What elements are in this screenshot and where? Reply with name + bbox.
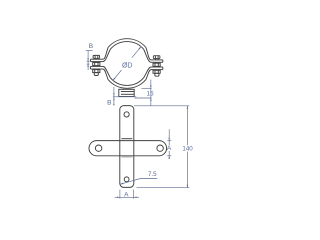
right bolt shaft lower <box>154 65 156 68</box>
arrow dim A bottom right <box>134 197 137 199</box>
arrow dia upper-right <box>139 47 142 50</box>
dim 140 line lower <box>186 152 188 188</box>
left bolt thread end <box>94 73 98 76</box>
arrow dim 140 down <box>187 185 189 188</box>
dim A bottom line right <box>134 196 139 198</box>
left upper band neck <box>103 48 108 60</box>
cross bar right hole <box>157 145 163 151</box>
dim A bottom line left <box>115 196 134 198</box>
vertical bar bottom hole <box>124 177 129 182</box>
dim B upper line <box>87 51 89 71</box>
arrow dim B upper up <box>87 64 89 67</box>
arrow dim A right up <box>168 156 170 159</box>
arrow dim A right down <box>168 138 170 141</box>
svg-text:B: B <box>107 100 111 107</box>
dim B upper tick 2 <box>87 63 90 65</box>
arrow dim 15 down <box>150 85 152 88</box>
left bolt shaft lower <box>94 65 96 68</box>
right nut 2 <box>153 70 160 73</box>
svg-text:15: 15 <box>147 90 154 97</box>
leader 7.5 underline <box>141 178 158 180</box>
dim A right tick bottom <box>167 155 171 157</box>
right bolt shaft mid <box>154 61 156 64</box>
left upper flange plate <box>91 58 104 60</box>
arrow dia lower-left <box>113 78 116 81</box>
dim B lower tick <box>113 104 115 106</box>
vertical bar <box>120 106 134 188</box>
bend line below cross bar <box>121 156 132 158</box>
arrow dim 15 up <box>150 98 152 101</box>
arrow dim B lower down <box>113 93 115 96</box>
left bolt shaft upper <box>94 57 96 60</box>
left lower flange plate <box>90 65 103 67</box>
arrow dim B upper down <box>87 58 89 61</box>
right lower band neck <box>146 70 151 80</box>
dia line upper-right <box>132 47 141 58</box>
left bolt shaft mid <box>94 61 96 64</box>
dim A right line upper <box>168 129 170 145</box>
vertical bar top hole <box>124 112 129 117</box>
right bolt head <box>153 56 160 59</box>
clamp band bottom outer arc <box>108 79 146 88</box>
svg-text:140: 140 <box>182 146 193 153</box>
dim B upper shelf <box>86 50 93 52</box>
left nut 1 <box>93 63 100 66</box>
dim 140 ext top <box>134 105 189 107</box>
socket body <box>119 89 134 96</box>
dim 15 line <box>150 80 152 106</box>
arrow dim 140 up <box>187 106 189 109</box>
arrow dim A bottom left <box>117 197 120 199</box>
dim A right line lower <box>168 151 170 159</box>
dim 140 line upper <box>186 106 188 145</box>
svg-text:B: B <box>89 43 93 50</box>
right nut 1 <box>153 63 160 66</box>
svg-text:A: A <box>167 145 172 152</box>
clamp band top outer arc <box>108 39 146 48</box>
cross bar left hole <box>95 145 101 151</box>
right upper band neck <box>146 48 151 60</box>
right bolt thread end <box>155 73 159 76</box>
dim 15 ext bottom <box>135 97 152 99</box>
dim A bottom ext right <box>133 190 135 199</box>
dim A right tick top <box>167 140 171 142</box>
dim B lower line <box>113 87 115 105</box>
left lower band neck <box>103 69 108 79</box>
svg-text:ØD: ØD <box>122 62 133 69</box>
left nut 2 <box>93 70 100 73</box>
horizontal cross bar <box>89 141 167 156</box>
leader 7.5 line <box>120 179 140 185</box>
dim B lower ext <box>113 96 136 98</box>
right bolt shaft upper <box>154 59 156 60</box>
arrow leader 7.5 <box>120 183 123 185</box>
clamp band top inner arc <box>110 42 144 50</box>
bend line above cross bar <box>121 138 132 140</box>
arrow dim B lower up <box>113 97 115 100</box>
svg-text:7.5: 7.5 <box>148 171 157 178</box>
dim 15 ext top <box>142 87 152 89</box>
dim 140 ext bottom <box>137 187 190 189</box>
dia line lower-left <box>113 70 122 80</box>
svg-text:A: A <box>124 192 129 199</box>
clamp band bottom inner arc <box>110 78 144 86</box>
dim A bottom ext left <box>119 190 121 199</box>
dim B upper tick 1 <box>87 60 90 62</box>
left bolt head <box>93 55 100 58</box>
right lower flange plate <box>151 66 163 68</box>
right upper flange plate <box>151 59 163 61</box>
